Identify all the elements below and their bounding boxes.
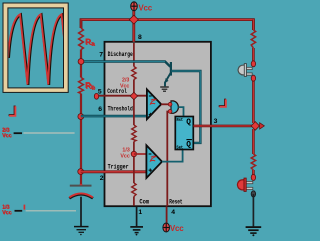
divider resistor R3 bbox=[132, 183, 136, 197]
svg-text:Q: Q bbox=[186, 141, 191, 149]
Vcc stem wire to pin 8 bbox=[132, 10, 135, 42]
capacitor C top plate bbox=[70, 185, 92, 186]
svg-text:Q: Q bbox=[186, 119, 191, 127]
pin 1 wire to ground bbox=[136, 206, 138, 226]
svg-text:Trigger: Trigger bbox=[108, 163, 129, 170]
junction diamond Vcc rail bbox=[129, 15, 138, 24]
svg-text:Vcc: Vcc bbox=[120, 154, 129, 160]
reset wire from pin4 up to gate bbox=[167, 112, 170, 207]
wire gate output to flip-flop bbox=[178, 107, 183, 116]
svg-text:Rst: Rst bbox=[177, 117, 184, 123]
base wire from flip-flop Q-bar bbox=[172, 71, 201, 143]
resistor Ra bbox=[79, 28, 84, 50]
junction dot 1/3 node bbox=[131, 151, 136, 156]
IC 555 body bbox=[105, 42, 211, 206]
node 2/3 Vcc reference line bbox=[2, 128, 75, 140]
svg-text:7: 7 bbox=[99, 51, 103, 58]
svg-text:Reset: Reset bbox=[169, 198, 182, 205]
marker bracket right bbox=[219, 99, 226, 107]
wire threshold comp output to gate bbox=[161, 103, 170, 105]
node 1/3 Vcc reference line bbox=[2, 204, 76, 216]
junction dot pin7 bbox=[78, 59, 84, 65]
wire cap to ground bbox=[80, 197, 82, 226]
trigger wire pin2 to comparator bbox=[81, 170, 147, 173]
capacitor C bottom curved plate bbox=[69, 193, 93, 198]
LED terminals bbox=[251, 174, 255, 180]
LED cathode terminal dot bbox=[251, 191, 255, 197]
internal voltage divider wire bbox=[133, 43, 135, 206]
divider resistor R2 bbox=[132, 125, 136, 142]
Vcc supply symbol top bbox=[131, 2, 153, 13]
svg-text:6: 6 bbox=[98, 106, 102, 113]
svg-text:Vcc: Vcc bbox=[170, 224, 184, 233]
transistor Q1 (discharge) bbox=[165, 62, 171, 86]
flip-flop U3 bbox=[175, 117, 193, 151]
svg-text:1/3: 1/3 bbox=[122, 147, 129, 153]
resistor Rb bbox=[79, 78, 84, 94]
svg-text:Discharge: Discharge bbox=[108, 51, 133, 58]
svg-text:8: 8 bbox=[138, 34, 142, 41]
junction diamond control node bbox=[130, 92, 137, 99]
control wire pin5 to divider to comparator bbox=[99, 95, 147, 97]
junction dot trigger node bbox=[78, 169, 84, 175]
ground (pin1) bbox=[130, 227, 143, 236]
buzzer SP1 bbox=[238, 64, 252, 77]
svg-text:Com: Com bbox=[139, 198, 149, 205]
divider resistor R1 bbox=[132, 67, 136, 80]
wire LED to ground bbox=[252, 194, 254, 226]
svg-text:1: 1 bbox=[138, 209, 142, 216]
output arrow bbox=[258, 123, 264, 129]
comparator U2 trigger bbox=[146, 145, 162, 178]
svg-text:Vcc: Vcc bbox=[2, 133, 11, 139]
oscilloscope window frame bbox=[3, 3, 68, 92]
svg-text:Vcc: Vcc bbox=[138, 4, 152, 13]
junction diamond output bbox=[251, 122, 259, 131]
marker bracket left bbox=[9, 106, 16, 116]
threshold wire (teal) to comparator bbox=[81, 115, 147, 118]
ground (LED) bbox=[246, 227, 262, 236]
svg-text:2: 2 bbox=[100, 175, 104, 182]
wire trigger comp output to flip-flop Set bbox=[162, 150, 183, 162]
svg-text:3: 3 bbox=[214, 118, 218, 125]
ground (capacitor) bbox=[74, 227, 89, 236]
buzzer terminals bbox=[251, 61, 255, 67]
svg-text:Threshold: Threshold bbox=[108, 106, 133, 113]
Vcc supply symbol bottom bbox=[163, 223, 184, 233]
svg-text:4: 4 bbox=[171, 209, 175, 216]
svg-text:Vcc: Vcc bbox=[2, 210, 11, 216]
svg-text:2/3: 2/3 bbox=[122, 77, 129, 83]
pin 5 open terminal dot bbox=[94, 93, 98, 99]
pin7 stub wire (teal) bbox=[83, 60, 106, 63]
svg-text:5: 5 bbox=[98, 88, 102, 95]
junction dot threshold node bbox=[78, 114, 84, 120]
comparator U1 threshold bbox=[147, 89, 161, 119]
svg-text:Control: Control bbox=[107, 88, 127, 95]
LED D1 bbox=[237, 178, 252, 191]
ground (transistor emitter) bbox=[160, 87, 169, 91]
resistor (LED branch) bbox=[251, 154, 255, 170]
resistor (buzzer branch) bbox=[251, 30, 255, 48]
wire 1/3 node to trigger comparator bbox=[134, 153, 147, 155]
right vertical wire (buzzer + LED chain) bbox=[252, 20, 255, 175]
scope waveform trace bbox=[8, 14, 70, 85]
left vertical wire x81 bbox=[80, 20, 82, 185]
pin 4 wire to Vcc bbox=[166, 206, 168, 223]
svg-text:Set: Set bbox=[177, 144, 184, 150]
output wire pin3 bbox=[194, 125, 252, 128]
discharge internal wire + transistor collector bbox=[106, 62, 170, 67]
Vcc rail top wire bbox=[81, 20, 253, 30]
gate G1 bbox=[168, 101, 178, 113]
